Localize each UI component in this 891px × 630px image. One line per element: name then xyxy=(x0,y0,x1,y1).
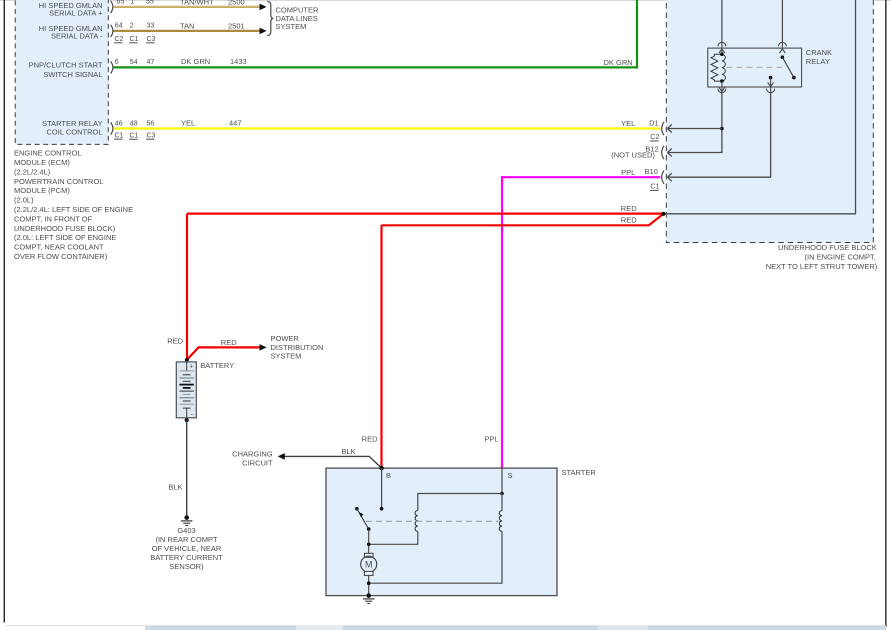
relay switch pivot dot xyxy=(781,55,785,59)
relay coil- pin wire + down arrow xyxy=(718,81,726,93)
relay coil resistor zigzag xyxy=(711,54,722,81)
svg-text:2500: 2500 xyxy=(228,0,245,7)
ECM location text block xyxy=(14,149,133,261)
label C2 under D1 xyxy=(650,134,659,141)
svg-text:BLK: BLK xyxy=(168,483,182,492)
svg-text:COMPT, IN FRONT OF: COMPT, IN FRONT OF xyxy=(14,214,93,223)
svg-text:47: 47 xyxy=(147,59,155,66)
svg-text:56: 56 xyxy=(147,121,155,128)
underhood fuse block box (dashed) xyxy=(666,0,873,243)
label UNDERHOOD FUSE BLOCK xyxy=(766,243,878,271)
svg-text:TAN/WHT: TAN/WHT xyxy=(180,0,214,7)
wire BLK to charging circuit xyxy=(285,447,382,468)
svg-text:PPL: PPL xyxy=(621,168,635,177)
connector arc row4 xyxy=(111,122,113,134)
B+ bus wire inside fuse block xyxy=(664,0,856,214)
svg-text:NEXT TO LEFT STRUT TOWER): NEXT TO LEFT STRUT TOWER) xyxy=(766,262,878,271)
solenoid hold-in coil feed xyxy=(501,494,503,511)
svg-text:RED: RED xyxy=(621,204,637,213)
connector labels C1 C1 C3 (row4) xyxy=(114,132,155,139)
svg-text:B: B xyxy=(386,471,391,480)
label G403 location xyxy=(150,526,223,571)
svg-text:DK GRN: DK GRN xyxy=(181,57,210,66)
node battery - junction xyxy=(185,418,189,422)
pin row 65 1 55 (clipped at top) xyxy=(117,0,154,5)
pin row 46 48 56 xyxy=(115,121,155,128)
starter switch linkage dashed xyxy=(366,520,498,522)
crank relay coil feed wire from top xyxy=(721,0,723,42)
wire DK GRN 1433 xyxy=(113,0,637,69)
svg-text:46: 46 xyxy=(115,121,123,128)
relay mechanical linkage dashed xyxy=(727,66,786,68)
pin row 6 54 47 xyxy=(115,59,155,66)
wire TAN 2501 xyxy=(113,21,260,31)
node junction D1 xyxy=(720,127,724,131)
crank relay box xyxy=(708,48,802,87)
svg-text:CIRCUIT: CIRCUIT xyxy=(242,458,273,467)
starter case ground xyxy=(363,593,374,603)
svg-text:1: 1 xyxy=(131,0,135,5)
svg-text:SWITCH SIGNAL: SWITCH SIGNAL xyxy=(43,70,102,79)
svg-text:B10: B10 xyxy=(645,167,658,176)
wire hold-in coil to motor return xyxy=(369,531,502,583)
wire RED upper (to battery) xyxy=(187,204,664,214)
wire solenoid top link xyxy=(418,494,502,511)
relay coil terminal dots xyxy=(720,52,724,56)
brace to computer data lines system xyxy=(267,1,273,35)
svg-text:STARTER: STARTER xyxy=(562,468,597,477)
wire YEL 447 xyxy=(113,118,660,128)
svg-text:RED: RED xyxy=(167,336,183,345)
label CHARGING CIRCUIT xyxy=(232,450,273,468)
connector arc row3 xyxy=(111,61,113,73)
svg-text:2: 2 xyxy=(130,23,134,30)
connector arc relay top-right pin xyxy=(778,42,786,49)
wire B internal xyxy=(381,468,383,509)
svg-text:M: M xyxy=(365,559,373,569)
svg-text:C1: C1 xyxy=(130,36,139,43)
arrow to charging circuit xyxy=(278,453,285,460)
page right border xyxy=(885,0,886,627)
wire RED vertical to battery xyxy=(167,214,187,360)
svg-text:YEL: YEL xyxy=(181,119,195,128)
svg-text:48: 48 xyxy=(130,121,138,128)
svg-text:D1: D1 xyxy=(649,118,659,127)
connector arc B10 xyxy=(662,171,664,184)
svg-text:65: 65 xyxy=(117,0,125,5)
battery BT xyxy=(176,362,196,419)
starter switch blade xyxy=(357,509,371,531)
svg-text:S: S xyxy=(508,471,513,480)
svg-text:SYSTEM: SYSTEM xyxy=(271,351,302,360)
relay coil winding xyxy=(722,54,725,81)
svg-text:SERIAL DATA -: SERIAL DATA - xyxy=(51,32,103,41)
svg-text:C1: C1 xyxy=(115,132,124,139)
svg-text:PNP/CLUTCH START: PNP/CLUTCH START xyxy=(29,60,103,69)
page top border xyxy=(0,0,891,2)
svg-text:55: 55 xyxy=(146,0,154,5)
svg-text:(IN ENGINE COMPT,: (IN ENGINE COMPT, xyxy=(805,253,876,262)
node B contact dot xyxy=(380,507,384,511)
svg-text:RED: RED xyxy=(221,338,237,347)
svg-text:C1: C1 xyxy=(130,132,139,139)
wire switch to motor xyxy=(368,529,370,553)
label STARTER RELAY COIL CONTROL xyxy=(42,119,102,136)
svg-text:UNDERHOOD FUSE BLOCK): UNDERHOOD FUSE BLOCK) xyxy=(14,224,116,233)
wire TAN/WHT 2500 xyxy=(113,0,260,7)
svg-text:(2.0L): (2.0L) xyxy=(14,196,34,205)
pin row 64 2 33 xyxy=(115,23,155,30)
svg-text:COIL CONTROL: COIL CONTROL xyxy=(47,127,103,136)
starter box xyxy=(326,468,557,595)
label PPL B10 xyxy=(621,167,658,177)
page left border xyxy=(4,0,5,623)
arrow to computer data lines (row2) xyxy=(260,28,267,35)
node S junction dot xyxy=(500,492,504,496)
wire relay output down to B10 xyxy=(668,93,771,177)
relay switch arm xyxy=(782,57,795,79)
svg-text:OVER FLOW CONTAINER): OVER FLOW CONTAINER) xyxy=(14,252,108,261)
svg-text:RED: RED xyxy=(362,435,378,444)
svg-text:54: 54 xyxy=(130,59,138,66)
arrow to computer data lines (row1) xyxy=(260,4,267,11)
svg-text:G403: G403 xyxy=(177,526,195,535)
svg-text:C3: C3 xyxy=(147,36,156,43)
wire PPL from fuse block to starter S xyxy=(502,176,660,468)
svg-text:CHARGING: CHARGING xyxy=(232,450,273,459)
svg-text:(IN REAR COMPT: (IN REAR COMPT xyxy=(155,535,218,544)
svg-text:DK GRN: DK GRN xyxy=(604,58,633,67)
solenoid hold-in coil xyxy=(499,511,502,532)
relay output pin dot xyxy=(769,76,773,80)
bottom scrollbar track xyxy=(5,625,886,630)
label PNP/CLUTCH START SWITCH SIGNAL xyxy=(29,60,103,79)
wire relay coil- down to D1/B12 xyxy=(721,93,723,153)
svg-text:BLK: BLK xyxy=(342,447,356,456)
label C1 under B10 xyxy=(650,184,659,191)
svg-text:(2.2L/2.4L: LEFT SIDE OF ENGIN: (2.2L/2.4L: LEFT SIDE OF ENGINE xyxy=(14,205,133,214)
ground G403 xyxy=(181,515,192,525)
svg-text:TAN: TAN xyxy=(180,21,194,30)
svg-text:SYSTEM: SYSTEM xyxy=(276,22,307,31)
relay top-right pin arrow xyxy=(780,49,786,53)
svg-text:SENSOR): SENSOR) xyxy=(169,562,204,571)
svg-text:C3: C3 xyxy=(147,132,156,139)
connector arc relay top-left pin xyxy=(718,42,726,54)
label HI SPEED GMLAN SERIAL DATA - xyxy=(39,24,103,40)
svg-text:C2: C2 xyxy=(650,134,659,141)
wire D1 arrow xyxy=(667,125,722,133)
label POWER DISTRIBUTION SYSTEM xyxy=(271,334,324,360)
solenoid pull-in coil xyxy=(415,511,418,532)
wire RED branch to power distribution xyxy=(187,338,260,360)
arrow B10 xyxy=(667,173,671,181)
node B terminal dot xyxy=(379,466,383,470)
connector arc row1 xyxy=(111,1,113,13)
label COMPUTER DATA LINES SYSTEM xyxy=(276,6,320,31)
wire pull-in coil bottom xyxy=(369,531,418,544)
svg-text:RELAY: RELAY xyxy=(806,57,830,66)
svg-text:(2.0L: LEFT SIDE OF ENGINE: (2.0L: LEFT SIDE OF ENGINE xyxy=(14,233,116,242)
svg-text:PPL: PPL xyxy=(484,435,498,444)
svg-text:COMPT, NEAR COOLANT: COMPT, NEAR COOLANT xyxy=(14,243,104,252)
svg-text:SERIAL DATA +: SERIAL DATA + xyxy=(49,9,103,18)
connector arc row2 xyxy=(111,25,113,37)
label CRANK RELAY xyxy=(806,48,832,66)
svg-text:POWERTRAIN CONTROL: POWERTRAIN CONTROL xyxy=(14,177,103,186)
svg-text:-: - xyxy=(191,409,194,418)
relay output pin wire + down arrow xyxy=(767,78,775,93)
node switch/coil junction xyxy=(367,543,371,547)
svg-text:OF VEHICLE, NEAR: OF VEHICLE, NEAR xyxy=(152,544,222,553)
starter switch contact dot xyxy=(355,507,359,511)
node red junction at fuse block xyxy=(661,212,665,216)
svg-text:64: 64 xyxy=(115,23,123,30)
svg-text:(NOT USED): (NOT USED) xyxy=(611,150,655,159)
svg-text:MODULE (PCM): MODULE (PCM) xyxy=(14,186,70,195)
label HI SPEED GMLAN SERIAL DATA + xyxy=(39,1,103,17)
motor M xyxy=(361,553,377,575)
svg-text:YEL: YEL xyxy=(621,119,635,128)
wire B12 arrow xyxy=(667,149,722,157)
arrow to power distribution xyxy=(260,344,267,351)
connector labels C2 C1 C3 xyxy=(114,36,155,43)
bottom scrollbar thumb xyxy=(145,626,886,630)
wire RED vertical to starter B xyxy=(362,225,382,468)
node battery + junction xyxy=(185,358,189,362)
svg-text:RED: RED xyxy=(621,215,637,224)
svg-text:1433: 1433 xyxy=(230,57,247,66)
wire S internal xyxy=(501,468,503,493)
svg-text:BATTERY CURRENT: BATTERY CURRENT xyxy=(150,553,223,562)
connector arc D1 xyxy=(662,122,664,135)
svg-text:ENGINE CONTROL: ENGINE CONTROL xyxy=(14,149,82,158)
svg-text:C2: C2 xyxy=(115,36,124,43)
svg-text:447: 447 xyxy=(229,119,242,128)
wire RED lower (to starter B) xyxy=(382,214,664,226)
svg-text:2501: 2501 xyxy=(228,21,245,30)
svg-text:UNDERHOOD FUSE BLOCK: UNDERHOOD FUSE BLOCK xyxy=(778,243,877,252)
svg-text:BATTERY: BATTERY xyxy=(200,361,234,370)
connector arc B12 xyxy=(662,146,664,159)
wire motor to ground xyxy=(368,575,370,595)
svg-text:(2.2L/2.4L): (2.2L/2.4L) xyxy=(14,167,51,176)
node motor return junction xyxy=(367,581,371,585)
svg-text:+: + xyxy=(190,364,194,371)
svg-text:6: 6 xyxy=(115,59,119,66)
wire BLK battery to ground xyxy=(168,420,186,515)
ECM module box (dashed) xyxy=(15,0,108,144)
svg-text:CRANK: CRANK xyxy=(806,48,832,57)
label B12 (NOT USED) xyxy=(611,144,658,159)
crank relay switch feed wire from top xyxy=(781,0,783,42)
svg-text:33: 33 xyxy=(147,23,155,30)
svg-text:MODULE (ECM): MODULE (ECM) xyxy=(14,158,70,167)
svg-text:C1: C1 xyxy=(650,184,659,191)
